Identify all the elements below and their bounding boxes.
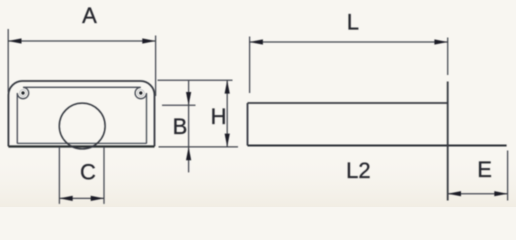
dim E dimension line: [448, 193, 508, 195]
screw hole right center dot: [139, 91, 142, 94]
front view inner outline with screw bosses: [17, 87, 146, 143]
arrow B up (below bottom ext): [186, 147, 191, 160]
arrow L right: [434, 39, 447, 44]
dim L extension line left: [249, 37, 251, 94]
arrow B down (above top ext): [186, 92, 191, 105]
dim H extension line top: [158, 79, 233, 81]
side view left edge: [247, 103, 249, 146]
side view flange / dim E extension left: [447, 82, 449, 201]
dim A extension line left: [7, 29, 9, 92]
front view outer outline: [8, 81, 154, 146]
dim L dimension line: [250, 41, 448, 43]
arrow H down: [225, 134, 230, 147]
dim L extension line right: [447, 38, 449, 76]
arrow H up: [225, 80, 230, 93]
svg-text:H: H: [211, 104, 227, 129]
screw hole left: [20, 90, 27, 97]
screw hole right: [137, 90, 144, 97]
arrow E left: [448, 191, 461, 196]
paper shading: [0, 150, 516, 207]
arrow E right: [494, 191, 507, 196]
dim A dimension line: [8, 40, 155, 42]
dim C extension line right: [103, 147, 105, 204]
svg-text:A: A: [82, 3, 97, 28]
side view top edge: [248, 102, 448, 104]
front view inner bottom edge: [17, 142, 146, 144]
dim E extension line right: [507, 151, 509, 201]
screw hole left center dot: [21, 91, 24, 94]
dim C extension line left: [58, 147, 60, 204]
svg-text:L: L: [347, 10, 359, 35]
svg-text:E: E: [477, 157, 492, 182]
arrow L left: [250, 39, 263, 44]
dim C dimension line: [59, 197, 104, 199]
side view bottom edge: [248, 145, 507, 147]
dim B/H extension line bottom: [159, 146, 239, 148]
big circular opening: [59, 103, 105, 149]
svg-text:B: B: [173, 114, 188, 139]
dim H dimension line: [226, 80, 228, 147]
front view outer bottom edge: [8, 145, 154, 147]
dim B dimension line: [188, 81, 190, 173]
dim B extension line top: [162, 104, 196, 106]
arrow A left: [8, 38, 21, 43]
svg-text:C: C: [80, 160, 96, 185]
dim A extension line right: [155, 36, 157, 97]
arrow C right: [91, 196, 104, 201]
arrow C left: [59, 196, 72, 201]
svg-text:L2: L2: [346, 158, 370, 183]
arrow A right: [142, 38, 155, 43]
